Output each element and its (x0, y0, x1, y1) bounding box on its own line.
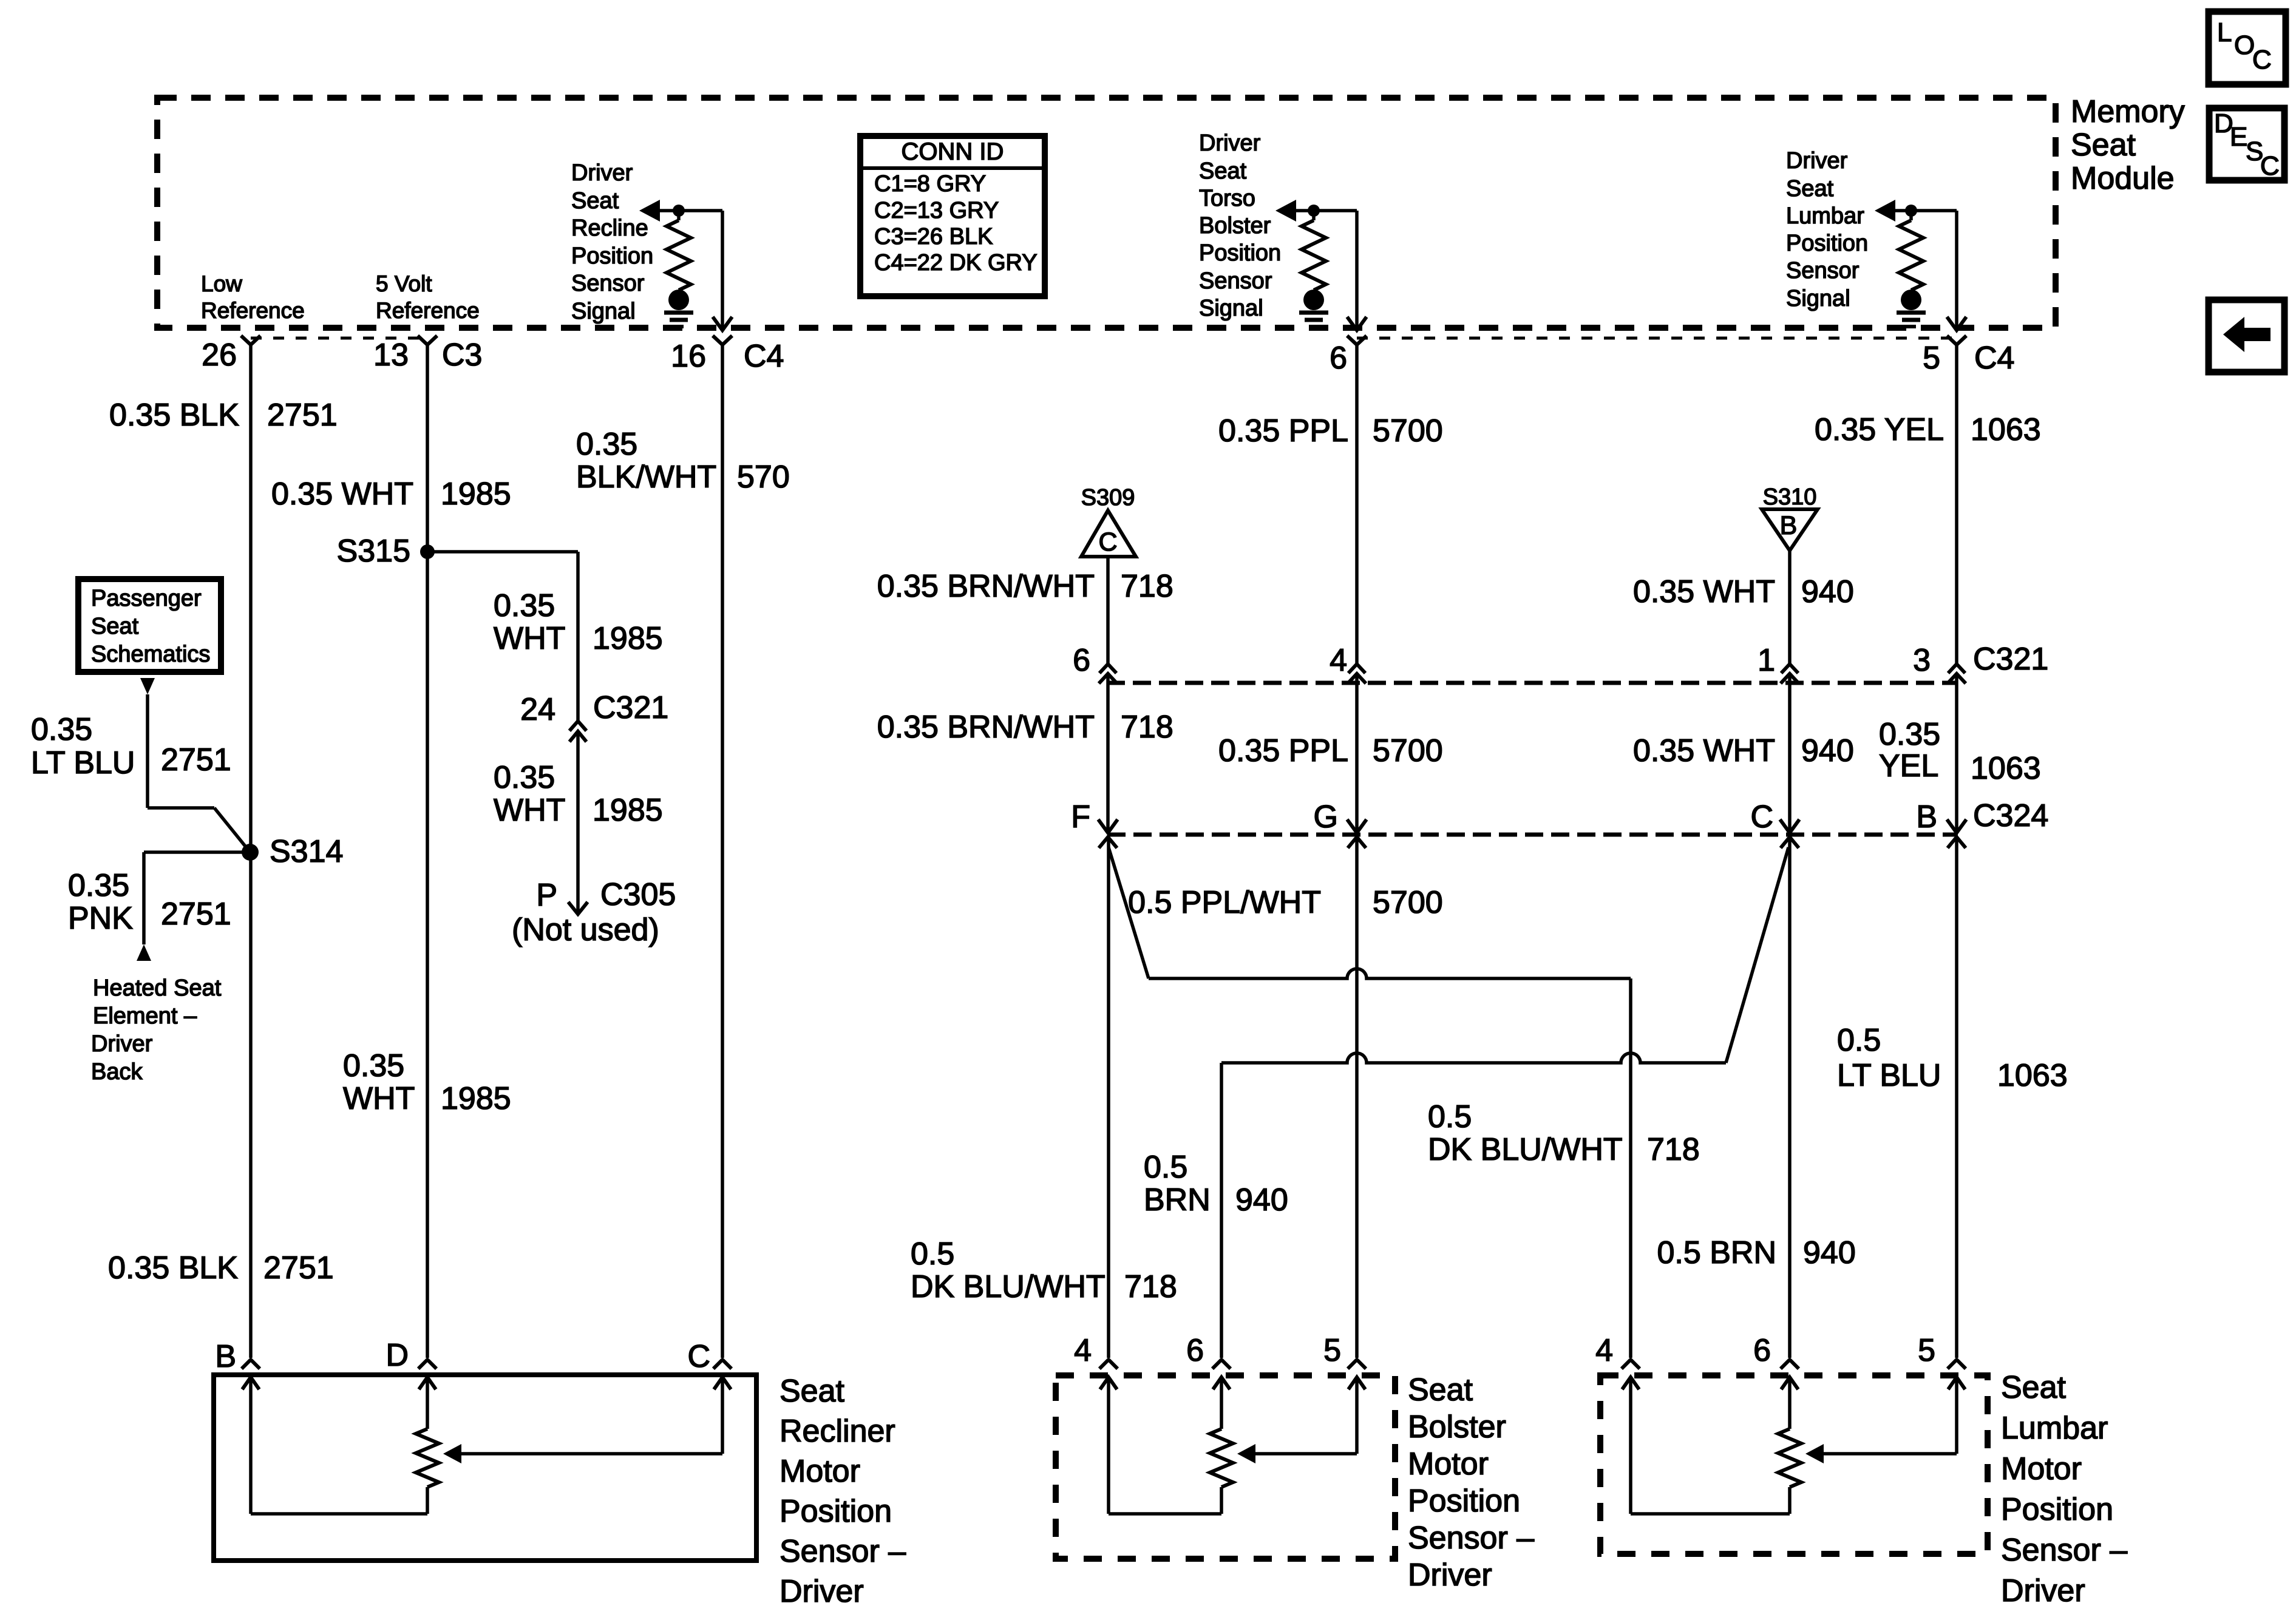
svg-text:0.35 WHT: 0.35 WHT (1633, 733, 1775, 768)
svg-text:Sensor –: Sensor – (2001, 1533, 2127, 1568)
svg-text:Recliner: Recliner (779, 1414, 895, 1449)
svg-text:Seat: Seat (779, 1374, 845, 1409)
svg-text:WHT: WHT (494, 621, 565, 656)
svg-text:C: C (2252, 45, 2272, 75)
svg-text:Driver: Driver (1199, 131, 1261, 156)
svg-text:Torso: Torso (1199, 186, 1255, 211)
svg-text:5: 5 (1323, 1333, 1341, 1368)
svg-text:2751: 2751 (263, 1250, 334, 1286)
svg-text:2751: 2751 (161, 742, 231, 778)
svg-text:718: 718 (1647, 1132, 1700, 1167)
svg-text:Driver: Driver (571, 160, 633, 186)
svg-text:Seat: Seat (91, 614, 139, 639)
svg-text:6: 6 (1330, 341, 1347, 376)
svg-text:LT BLU: LT BLU (31, 745, 135, 781)
svg-text:16: 16 (671, 339, 706, 374)
svg-text:0.35: 0.35 (576, 427, 637, 462)
svg-text:Signal: Signal (1786, 286, 1850, 311)
svg-text:940: 940 (1803, 1235, 1856, 1270)
svg-text:0.35 BRN/WHT: 0.35 BRN/WHT (877, 569, 1095, 604)
svg-text:DK BLU/WHT: DK BLU/WHT (911, 1269, 1106, 1304)
svg-text:0.35 BRN/WHT: 0.35 BRN/WHT (877, 710, 1095, 745)
svg-text:5700: 5700 (1373, 733, 1443, 768)
svg-text:0.35: 0.35 (1879, 717, 1940, 752)
svg-text:718: 718 (1121, 710, 1173, 745)
svg-text:13: 13 (373, 337, 409, 373)
svg-text:1985: 1985 (441, 476, 511, 512)
svg-text:Passenger: Passenger (91, 586, 202, 611)
svg-text:0.5: 0.5 (911, 1236, 954, 1272)
svg-text:0.35 WHT: 0.35 WHT (271, 476, 413, 512)
svg-text:WHT: WHT (343, 1081, 415, 1116)
svg-text:PNK: PNK (68, 901, 133, 936)
svg-text:G: G (1314, 799, 1338, 835)
svg-text:26: 26 (202, 337, 237, 373)
svg-text:1985: 1985 (593, 793, 663, 828)
svg-text:5700: 5700 (1373, 885, 1443, 920)
svg-text:C3: C3 (442, 337, 482, 373)
svg-text:C324: C324 (1973, 798, 2048, 833)
svg-text:1063: 1063 (1971, 751, 2041, 786)
svg-text:4: 4 (1595, 1333, 1613, 1368)
svg-text:L: L (2217, 18, 2232, 47)
svg-text:C1=8 GRY: C1=8 GRY (874, 171, 986, 197)
svg-text:C: C (2260, 151, 2280, 181)
svg-text:718: 718 (1124, 1269, 1177, 1304)
svg-text:0.35: 0.35 (68, 868, 129, 903)
svg-text:C321: C321 (1973, 642, 2048, 677)
svg-text:C4: C4 (1974, 341, 2014, 376)
svg-text:D: D (385, 1338, 409, 1373)
svg-text:2751: 2751 (161, 897, 231, 932)
svg-text:0.35 YEL: 0.35 YEL (1815, 412, 1944, 447)
svg-text:BRN: BRN (1144, 1182, 1211, 1218)
svg-text:Element –: Element – (93, 1003, 197, 1029)
svg-text:C4: C4 (744, 339, 784, 374)
svg-text:Driver: Driver (779, 1574, 864, 1609)
svg-text:Position: Position (1199, 240, 1281, 266)
svg-text:570: 570 (737, 459, 790, 495)
svg-text:0.5: 0.5 (1428, 1099, 1472, 1134)
svg-text:0.35: 0.35 (343, 1048, 404, 1083)
svg-text:6: 6 (1073, 643, 1090, 678)
svg-text:Signal: Signal (571, 299, 636, 324)
svg-text:B: B (1916, 799, 1937, 835)
svg-text:(Not used): (Not used) (512, 912, 659, 947)
svg-text:Motor: Motor (779, 1454, 860, 1489)
svg-text:B: B (215, 1339, 236, 1374)
svg-text:Reference: Reference (201, 298, 305, 323)
svg-text:1063: 1063 (1971, 412, 2041, 447)
svg-text:0.5 BRN: 0.5 BRN (1657, 1235, 1776, 1270)
svg-text:Driver: Driver (2001, 1573, 2085, 1609)
svg-text:940: 940 (1801, 733, 1854, 768)
svg-text:C: C (1750, 799, 1773, 835)
svg-text:0.35: 0.35 (494, 588, 555, 623)
svg-text:0.35 BLK: 0.35 BLK (108, 1250, 238, 1286)
svg-text:2751: 2751 (267, 398, 338, 433)
svg-text:1985: 1985 (441, 1081, 511, 1116)
svg-text:Recline: Recline (571, 215, 648, 241)
svg-text:YEL: YEL (1879, 748, 1938, 784)
svg-text:WHT: WHT (494, 793, 565, 828)
svg-text:0.35 PPL: 0.35 PPL (1218, 733, 1348, 768)
svg-text:Sensor: Sensor (1199, 268, 1272, 294)
svg-text:Seat: Seat (1199, 158, 1247, 184)
svg-text:5: 5 (1923, 341, 1940, 376)
svg-text:Seat: Seat (1786, 176, 1834, 202)
svg-text:Sensor: Sensor (1786, 258, 1860, 283)
svg-text:C4=22 DK GRY: C4=22 DK GRY (874, 250, 1038, 276)
svg-text:4: 4 (1074, 1333, 1092, 1368)
svg-text:0.5: 0.5 (1837, 1023, 1881, 1058)
svg-text:C3=26 BLK: C3=26 BLK (874, 224, 993, 249)
svg-text:1: 1 (1758, 643, 1775, 678)
svg-text:P: P (536, 878, 557, 913)
svg-text:Seat: Seat (2001, 1370, 2067, 1405)
svg-text:Seat: Seat (2071, 127, 2136, 163)
svg-text:24: 24 (520, 692, 555, 727)
svg-text:Position: Position (1786, 231, 1868, 256)
svg-text:Memory: Memory (2071, 94, 2185, 129)
svg-text:S314: S314 (270, 834, 343, 869)
svg-text:Driver: Driver (1786, 148, 1848, 174)
svg-text:DK BLU/WHT: DK BLU/WHT (1428, 1132, 1623, 1167)
svg-text:Position: Position (1408, 1483, 1520, 1519)
svg-text:0.5 PPL/WHT: 0.5 PPL/WHT (1128, 885, 1321, 920)
svg-text:F: F (1071, 799, 1090, 835)
svg-text:Module: Module (2071, 161, 2175, 196)
svg-text:E: E (2230, 122, 2247, 152)
svg-text:718: 718 (1121, 569, 1173, 604)
svg-text:5 Volt: 5 Volt (376, 271, 432, 296)
svg-text:Driver: Driver (91, 1031, 153, 1057)
svg-text:Bolster: Bolster (1199, 213, 1271, 239)
svg-text:5700: 5700 (1373, 413, 1443, 449)
svg-text:C: C (687, 1339, 710, 1374)
svg-text:S315: S315 (337, 534, 410, 569)
svg-text:Position: Position (571, 243, 653, 269)
svg-text:Lumbar: Lumbar (1786, 203, 1864, 229)
svg-text:Sensor –: Sensor – (779, 1534, 906, 1569)
svg-text:Heated Seat: Heated Seat (93, 975, 222, 1001)
svg-text:940: 940 (1235, 1182, 1288, 1218)
svg-text:C: C (1098, 527, 1117, 557)
svg-text:0.5: 0.5 (1144, 1150, 1187, 1185)
svg-text:Back: Back (91, 1059, 143, 1085)
svg-text:0.35: 0.35 (31, 712, 92, 747)
svg-text:4: 4 (1330, 643, 1347, 678)
svg-text:0.35 BLK: 0.35 BLK (109, 398, 239, 433)
svg-text:Bolster: Bolster (1408, 1409, 1506, 1445)
svg-text:Seat: Seat (571, 188, 619, 214)
svg-text:B: B (1780, 511, 1798, 540)
svg-text:940: 940 (1801, 574, 1854, 609)
svg-text:CONN ID: CONN ID (902, 138, 1004, 165)
svg-text:Lumbar: Lumbar (2001, 1411, 2108, 1446)
svg-text:C321: C321 (593, 690, 668, 725)
svg-text:6: 6 (1186, 1333, 1204, 1368)
svg-text:Low: Low (201, 271, 242, 296)
svg-text:Position: Position (779, 1494, 892, 1529)
svg-text:C2=13 GRY: C2=13 GRY (874, 198, 999, 223)
svg-text:1063: 1063 (1997, 1058, 2068, 1093)
svg-text:LT BLU: LT BLU (1837, 1058, 1941, 1093)
svg-text:BLK/WHT: BLK/WHT (576, 459, 716, 495)
svg-text:Motor: Motor (1408, 1446, 1489, 1482)
svg-text:Driver: Driver (1408, 1558, 1492, 1593)
svg-text:Position: Position (2001, 1492, 2113, 1527)
svg-text:Motor: Motor (2001, 1451, 2082, 1486)
svg-text:S309: S309 (1081, 485, 1135, 510)
svg-text:Signal: Signal (1199, 296, 1263, 321)
svg-text:0.35 PPL: 0.35 PPL (1218, 413, 1348, 449)
svg-text:5: 5 (1918, 1333, 1935, 1368)
svg-text:3: 3 (1913, 643, 1931, 678)
svg-text:0.35: 0.35 (494, 760, 555, 795)
svg-text:0.35 WHT: 0.35 WHT (1633, 574, 1775, 609)
svg-text:Reference: Reference (376, 298, 480, 323)
svg-text:1985: 1985 (593, 621, 663, 656)
svg-text:C305: C305 (600, 877, 676, 912)
svg-text:Sensor: Sensor (571, 271, 645, 296)
svg-text:Schematics: Schematics (91, 642, 210, 667)
svg-text:Seat: Seat (1408, 1372, 1473, 1408)
svg-text:6: 6 (1753, 1333, 1771, 1368)
svg-text:S310: S310 (1763, 484, 1817, 510)
svg-text:Sensor –: Sensor – (1408, 1520, 1534, 1556)
